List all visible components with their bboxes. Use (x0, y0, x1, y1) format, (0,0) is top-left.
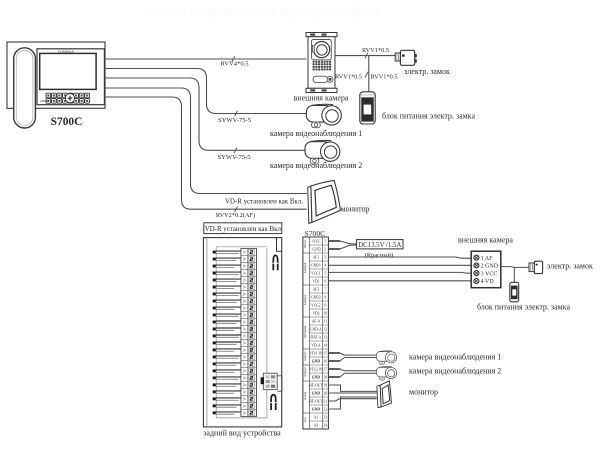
svg-text:SYWV-75-5: SYWV-75-5 (217, 154, 251, 161)
svg-text:электр. замок: электр. замок (404, 67, 450, 76)
label монитор (top) (341, 205, 370, 214)
wire SYWV-75-5 to CCTV camera 2 (105, 78, 305, 161)
svg-text:монитор: монитор (341, 205, 370, 214)
svg-text:1: 1 (324, 239, 326, 243)
CCTV camera 2 (bottom) (376, 367, 396, 381)
svg-text:DAT-A: DAT-A (311, 335, 322, 339)
label электр. замок (bottom) (547, 262, 593, 271)
svg-text:внешняя камера: внешняя камера (294, 93, 349, 102)
svg-text:GND2: GND2 (311, 295, 321, 299)
wire pin6 VD (328, 280, 471, 282)
svg-text:S700C: S700C (51, 116, 83, 128)
door station (внешняя камера) (306, 33, 337, 93)
VD-R jumper block (261, 373, 282, 391)
label внешняя камера (bottom) (458, 236, 513, 245)
svg-text:VCC1: VCC1 (311, 271, 321, 275)
svg-text:2 GND: 2 GND (481, 264, 499, 270)
svg-text:+VCC: +VCC (311, 239, 321, 243)
button panel (41, 93, 90, 103)
handset (14, 48, 36, 128)
svg-text:15: 15 (324, 351, 328, 355)
svg-text:блок питания электр. замка: блок питания электр. замка (477, 302, 570, 311)
label блок питания электр. замка (top) (382, 111, 475, 120)
note (Красный) (365, 252, 394, 259)
svg-text:VD-R установлен как Вкл.: VD-R установлен как Вкл. (225, 198, 303, 205)
terminal strip S700C (303, 237, 329, 429)
wire RVV1*0.5 to electric lock (335, 47, 395, 59)
label камера видеонаблюдения 2 (bottom) (409, 366, 501, 375)
svg-text:RVV1*0.5: RVV1*0.5 (335, 74, 362, 81)
intercom monitor S700C wall plate (7, 42, 105, 108)
svg-text:доп: доп (303, 417, 307, 422)
svg-text:2: 2 (324, 247, 326, 251)
electric lock (top) (395, 50, 417, 65)
rear wire bundle (213, 251, 241, 415)
svg-text:23: 23 (324, 415, 328, 419)
wire pin4 GND (328, 264, 471, 266)
svg-text:RVV4*0.5: RVV4*0.5 (220, 60, 249, 67)
wire pin1 to DC supply (328, 241, 356, 244)
label блок питания электр. замка (bottom) (477, 302, 570, 311)
power supply of electric lock (bottom) (510, 282, 519, 302)
svg-text:MENU: MENU (41, 100, 49, 103)
svg-text:-GND: -GND (311, 247, 321, 251)
svg-text:19: 19 (324, 383, 328, 387)
label камера видеонаблюдения 1 (top) (270, 129, 362, 138)
svg-text:камера1: камера1 (303, 262, 307, 273)
label монитор (bottom) (409, 387, 438, 396)
wire RVV2*0.2(AF) to external monitor (105, 97, 307, 219)
CCTV camera 2 (top) (305, 140, 340, 164)
svg-text:18: 18 (324, 375, 328, 379)
wire VD-R to external monitor (105, 88, 307, 205)
svg-text:AF-A: AF-A (312, 319, 321, 323)
svg-text:VD-2 IN: VD-2 IN (309, 367, 323, 371)
svg-text:11: 11 (324, 319, 328, 323)
label задний вид устройства (203, 429, 281, 438)
wire pin22 to monitor (328, 397, 376, 409)
svg-text:GND: GND (312, 407, 321, 411)
svg-text:20: 20 (324, 391, 328, 395)
svg-text:камера видеонаблюдения 1: камера видеонаблюдения 1 (270, 129, 362, 138)
svg-text:14: 14 (324, 343, 328, 347)
svg-text:GND1: GND1 (311, 263, 321, 267)
svg-text:1 AF: 1 AF (481, 256, 494, 262)
wire pin18 to CCTV camera 2 (328, 373, 376, 377)
external monitor (bottom 3-D icon) (377, 381, 392, 408)
svg-text:3: 3 (324, 255, 326, 259)
wire RVV4*0.5 to door station (105, 56, 307, 67)
svg-text:DC13.5V /1.5A: DC13.5V /1.5A (358, 242, 401, 249)
svg-text:камера видеонаблюдения 2: камера видеонаблюдения 2 (409, 366, 501, 375)
svg-text:GND: GND (312, 391, 321, 395)
svg-text:электр. замок: электр. замок (547, 262, 593, 271)
svg-text:GND-A: GND-A (310, 327, 322, 331)
wire GND to electric lock (bottom) (501, 266, 529, 269)
svg-text:HF-OUT: HF-OUT (309, 399, 323, 403)
label камера видеонаблюдения 2 (top) (270, 161, 362, 170)
svg-text:12: 12 (324, 327, 328, 331)
svg-text:10: 10 (324, 311, 328, 315)
wire pin17 to CCTV camera 2 (328, 369, 376, 371)
monitor screen (40, 53, 96, 89)
svg-text:(Красный): (Красный) (365, 252, 394, 259)
svg-text:GND: GND (312, 359, 321, 363)
CCTV camera 1 (top) (306, 104, 341, 128)
svg-text:внешняя камера: внешняя камера (458, 236, 513, 245)
jumper plug (bottom right of rear view) (271, 395, 277, 410)
rear terminal strip (241, 249, 257, 417)
svg-text:RVV1*0.5: RVV1*0.5 (362, 47, 389, 54)
svg-text:4 VD: 4 VD (481, 279, 495, 285)
wire pin3 AF (328, 257, 471, 258)
wire branch to lock PSU (335, 56, 397, 92)
svg-text:задний вид устройства: задний вид устройства (203, 429, 281, 438)
svg-text:HF-OUT: HF-OUT (309, 383, 323, 387)
svg-text:интерком: интерком (303, 326, 307, 338)
wire pin21 to monitor (328, 399, 376, 401)
svg-text:камера видеонаблюдения 2: камера видеонаблюдения 2 (270, 161, 362, 170)
svg-text:6: 6 (324, 279, 326, 283)
svg-text:5: 5 (324, 271, 326, 275)
svg-text:VD2: VD2 (312, 311, 319, 315)
svg-text:камера2: камера2 (303, 294, 307, 305)
svg-text:A2: A2 (314, 423, 319, 427)
svg-text:16: 16 (324, 359, 328, 363)
svg-text:питан.: питан. (303, 239, 307, 248)
wire pin19 to monitor (328, 385, 376, 391)
svg-text:21: 21 (324, 399, 328, 403)
svg-text:RVV1*0.5: RVV1*0.5 (371, 74, 398, 81)
svg-text:24: 24 (324, 423, 328, 427)
svg-text:RVV2*0.2(AF): RVV2*0.2(AF) (216, 212, 255, 219)
svg-text:AF1: AF1 (313, 255, 320, 259)
rear view of device (задний вид устройства) (203, 238, 281, 427)
wire pin16 to CCTV camera 1 (328, 358, 376, 362)
svg-text:AF2: AF2 (313, 287, 320, 291)
label S700C (51, 116, 83, 128)
wire pin2 to DC supply (328, 245, 356, 249)
svg-text:VCC2: VCC2 (311, 303, 321, 307)
svg-text:17: 17 (324, 367, 328, 371)
wire pin20 to monitor (328, 392, 376, 394)
svg-text:4: 4 (324, 263, 326, 267)
label S700C (terminal strip) (305, 229, 326, 238)
svg-text:S700C: S700C (305, 229, 326, 238)
label электр. замок (top) (404, 67, 450, 76)
label внешняя камера (top) (294, 93, 349, 102)
svg-text:3 VCC: 3 VCC (481, 271, 498, 277)
svg-text:камера видеонаблюдения 1: камера видеонаблюдения 1 (409, 352, 501, 361)
svg-text:7: 7 (324, 287, 326, 291)
svg-text:8: 8 (324, 295, 326, 299)
svg-text:VD-R установлен как Вкл: VD-R установлен как Вкл (205, 226, 282, 233)
svg-text:VD-1 IN: VD-1 IN (309, 351, 323, 355)
wire branch to lock PSU (bottom) (513, 267, 515, 282)
svg-text:VD-A: VD-A (311, 343, 321, 347)
terminal block 1AF 2GND 3VCC 4VD (471, 251, 501, 288)
label камера видеонаблюдения 1 (bottom) (409, 352, 501, 361)
monitor body (37, 49, 104, 105)
external monitor (top 3-D icon) (308, 180, 341, 223)
svg-text:VD1: VD1 (312, 279, 319, 283)
svg-text:22: 22 (324, 407, 328, 411)
wire SYWV-75-5 to CCTV camera 1 (105, 69, 306, 125)
svg-text:монитор: монитор (409, 387, 438, 396)
wire pin5 VCC (328, 271, 471, 274)
svg-text:GND: GND (312, 375, 321, 379)
wire pin15 to CCTV camera 1 (328, 353, 376, 355)
power supply of electric lock (top) (360, 92, 375, 124)
electric lock (bottom) (529, 261, 543, 273)
svg-text:9: 9 (324, 303, 326, 307)
DC supply box DC13.5V/1.5A (357, 240, 403, 249)
svg-text:13: 13 (324, 335, 328, 339)
svg-text:A1: A1 (314, 415, 319, 419)
svg-text:выход: выход (303, 391, 307, 399)
svg-text:видео2: видео2 (303, 367, 307, 377)
jumper plug (top right of rear view) (273, 255, 279, 270)
svg-text:схема подключения видеодомофон: схема подключения видеодомофона (150, 4, 380, 20)
svg-text:блок питания электр. замка: блок питания электр. замка (382, 111, 475, 120)
CCTV camera 1 (bottom) (376, 351, 396, 365)
ghost scan artifact (150, 4, 380, 20)
svg-text:видео1: видео1 (303, 351, 307, 361)
svg-text:SYWV-75-5: SYWV-75-5 (218, 117, 252, 124)
boxed note VD-R установлен как Вкл (204, 223, 282, 234)
